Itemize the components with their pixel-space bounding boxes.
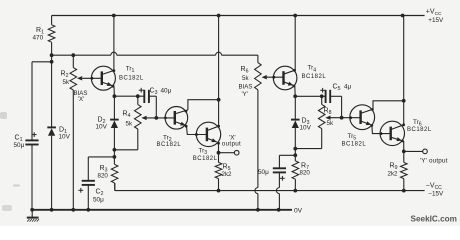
svg-text:'X': 'X' bbox=[78, 96, 84, 103]
wire R4 wiper to Tr2 base bbox=[146, 116, 175, 120]
node +Vcc label bbox=[426, 9, 444, 24]
wire X output bbox=[219, 152, 235, 154]
svg-text:'Y': 'Y' bbox=[242, 91, 248, 98]
label R4 5k bbox=[123, 110, 133, 127]
svg-text:output: output bbox=[222, 141, 241, 148]
label R8 5k bbox=[324, 107, 334, 127]
node C4 junction bbox=[293, 153, 297, 157]
wire +Vcc top supply rail bbox=[52, 14, 425, 18]
wire R4 top bbox=[137, 96, 139, 104]
capacitor C1 bbox=[25, 132, 38, 144]
label Y output bbox=[420, 158, 448, 165]
wire Tr5 collector to supply line bbox=[373, 99, 406, 109]
svg-text:820: 820 bbox=[300, 170, 311, 177]
svg-text:5k: 5k bbox=[63, 79, 70, 86]
node Tr1 emitter bbox=[113, 94, 145, 98]
transistor Tr6 BC182L bbox=[380, 121, 405, 145]
wire C2 bottom bbox=[87, 185, 89, 210]
wire D2 bottom bbox=[113, 128, 115, 164]
wire Tr3 emitter down bbox=[217, 144, 221, 163]
wire Y output bbox=[404, 150, 423, 152]
label Tr1 bbox=[119, 66, 144, 82]
label R2 5k bbox=[61, 70, 70, 86]
wire C1 top bbox=[32, 62, 52, 141]
node Tr4 emitter bbox=[293, 94, 325, 98]
wire Tr4 emitter down bbox=[294, 86, 296, 96]
label R1 470 bbox=[33, 27, 45, 42]
terminal X output bbox=[234, 150, 239, 155]
capacitor C5 bbox=[320, 88, 330, 103]
label R3 820 bbox=[98, 165, 109, 180]
label Tr2 bbox=[157, 134, 182, 148]
wire D1 top bbox=[51, 62, 53, 128]
wire Tr6 emitter down bbox=[402, 141, 406, 162]
wire C3 to Tr2 base bbox=[149, 96, 156, 118]
label D1 10V bbox=[59, 126, 71, 140]
wire D2 top bbox=[113, 96, 115, 119]
wire R2 bottom bbox=[72, 90, 74, 210]
potentiometer R2 bbox=[70, 68, 82, 90]
capacitor C2 bbox=[78, 181, 95, 193]
wire Tr1 collector to +Vcc bbox=[113, 16, 115, 71]
wire R9 bottom bbox=[403, 179, 405, 191]
wire R8 bottom bbox=[295, 129, 321, 149]
svg-text:BC182L: BC182L bbox=[342, 141, 367, 147]
wire C4 top bbox=[279, 155, 295, 168]
svg-text:820: 820 bbox=[98, 172, 109, 179]
zener diode D2 bbox=[110, 120, 119, 128]
svg-text:BC182L: BC182L bbox=[302, 74, 327, 80]
wire C2 top bbox=[88, 157, 114, 181]
transistor Tr5 BC182L bbox=[350, 105, 375, 130]
node C1/D1 junction bbox=[50, 55, 54, 63]
svg-text:50μ: 50μ bbox=[14, 142, 25, 149]
potentiometer R8 bbox=[318, 104, 330, 128]
label C5 4u bbox=[333, 83, 352, 92]
resistor R5 bbox=[215, 162, 222, 178]
svg-text:5k: 5k bbox=[242, 75, 249, 82]
svg-text:10V: 10V bbox=[300, 125, 312, 132]
wire R2 top bbox=[72, 55, 74, 67]
wire C5 to Tr5 base bbox=[330, 96, 341, 117]
resistor R1 bbox=[48, 16, 55, 56]
svg-text:2k2: 2k2 bbox=[222, 171, 233, 178]
svg-text:+15V: +15V bbox=[428, 17, 444, 24]
label D3 10V bbox=[300, 117, 312, 131]
terminal Y output bbox=[423, 149, 428, 154]
resistor R3 bbox=[111, 164, 118, 183]
label X output bbox=[222, 135, 241, 148]
svg-text:'Y' output: 'Y' output bbox=[420, 158, 448, 165]
wire R8 top bbox=[321, 96, 323, 104]
label SeekIC.com watermark bbox=[411, 214, 457, 223]
zener diode D3 bbox=[291, 120, 300, 128]
label R6 5k bbox=[241, 66, 250, 82]
potentiometer R4 bbox=[135, 105, 147, 129]
wire R6 bottom bbox=[255, 90, 258, 210]
wire decoupled bias rail bbox=[50, 52, 258, 62]
node -Vcc label bbox=[426, 183, 444, 198]
wire 0V ground rail bbox=[30, 208, 292, 212]
svg-text:10V: 10V bbox=[96, 123, 108, 130]
wire Tr1 emitter down bbox=[113, 87, 115, 97]
svg-text:BC182L: BC182L bbox=[157, 142, 182, 148]
wire Tr4 collector to +Vcc bbox=[294, 16, 296, 71]
label Tr5 bbox=[342, 133, 367, 147]
svg-text:5k: 5k bbox=[126, 121, 133, 128]
label C4 50u bbox=[258, 169, 269, 176]
wire Tr2 collector to supply line bbox=[188, 98, 221, 110]
label C2 50u bbox=[93, 188, 104, 203]
label Tr3 bbox=[193, 147, 218, 162]
resistor R7 bbox=[292, 161, 299, 179]
wire R7 bottom bbox=[294, 179, 296, 190]
node C2 junction bbox=[113, 155, 117, 159]
wire R6 wiper to Tr4 base bbox=[267, 76, 284, 79]
svg-text:50μ: 50μ bbox=[93, 196, 104, 203]
wire D3 bottom bbox=[294, 128, 296, 161]
svg-text:BC182L: BC182L bbox=[193, 156, 218, 162]
label BIAS X bbox=[74, 90, 88, 103]
scan artifacts bbox=[0, 112, 20, 211]
svg-text:470: 470 bbox=[33, 34, 44, 41]
label R9 2k2 bbox=[388, 162, 399, 177]
svg-text:BC182L: BC182L bbox=[119, 75, 144, 81]
svg-text:BIAS: BIAS bbox=[239, 84, 253, 91]
transistor Tr1 BC182L bbox=[91, 66, 115, 90]
node R4/D2 junction bbox=[113, 148, 117, 152]
wire R3 bottom bbox=[114, 183, 116, 191]
wire -Vcc bottom supply rail bbox=[115, 183, 425, 192]
label R7 820 bbox=[300, 162, 311, 176]
svg-text:BC182L: BC182L bbox=[407, 127, 432, 133]
wire R4 bottom bbox=[114, 129, 137, 150]
svg-text:50μ: 50μ bbox=[258, 169, 269, 176]
svg-text:5k: 5k bbox=[327, 120, 334, 127]
label R5 2k2 bbox=[222, 163, 233, 178]
node 0V label bbox=[294, 208, 303, 215]
svg-text:40μ: 40μ bbox=[161, 87, 172, 94]
svg-text:−15V: −15V bbox=[428, 191, 444, 198]
label Tr6 bbox=[407, 119, 432, 133]
transistor Tr4 BC182L bbox=[273, 66, 297, 90]
svg-text:2k2: 2k2 bbox=[388, 170, 399, 177]
wire R2 wiper to Tr1 base bbox=[82, 77, 102, 80]
wire Tr2 emitter to Tr3 base bbox=[187, 127, 207, 137]
zener diode D1 bbox=[47, 127, 56, 135]
svg-text:SeekIC.com: SeekIC.com bbox=[411, 214, 457, 223]
label C1 50u bbox=[14, 134, 25, 149]
label D2 10V bbox=[96, 116, 108, 130]
label BIAS Y bbox=[239, 84, 253, 98]
label C3 40u bbox=[150, 87, 172, 96]
svg-text:10V: 10V bbox=[59, 134, 71, 141]
transistor Tr3 BC182L bbox=[196, 122, 220, 146]
label Tr4 bbox=[302, 65, 327, 80]
transistor Tr2 BC182L bbox=[165, 107, 188, 130]
wire +Vcc to Tr6 collector bbox=[403, 16, 405, 125]
svg-text:0V: 0V bbox=[294, 208, 303, 215]
resistor R9 bbox=[401, 162, 408, 178]
ground bbox=[27, 210, 39, 222]
wire D3 top bbox=[294, 96, 296, 119]
wire R8 wiper to Tr5 base bbox=[330, 116, 361, 120]
wire C4 bottom bbox=[276, 172, 279, 209]
capacitor C3 bbox=[139, 88, 149, 103]
wire +Vcc to Tr3 collector bbox=[218, 16, 220, 127]
capacitor C4 bbox=[273, 168, 286, 180]
svg-text:4μ: 4μ bbox=[344, 84, 352, 91]
node R8/D3 junction bbox=[293, 147, 297, 151]
wire D1 bottom bbox=[51, 136, 53, 210]
wire R5 bottom bbox=[218, 179, 220, 191]
potentiometer R6 bbox=[255, 63, 267, 90]
wire C1 bottom bbox=[31, 145, 33, 210]
wire Tr5 emitter to Tr6 base bbox=[372, 126, 391, 135]
